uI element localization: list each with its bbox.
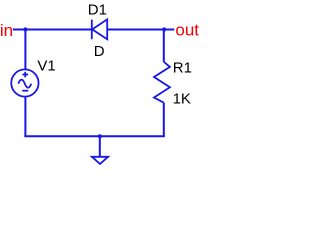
wire right vertical lower <box>163 103 165 137</box>
svg-text:out: out <box>175 21 199 40</box>
junction node in <box>23 27 27 31</box>
svg-text:D: D <box>94 43 105 60</box>
svg-text:1K: 1K <box>173 90 191 107</box>
wire left vertical lower <box>24 97 26 138</box>
resistor R1 <box>154 62 170 103</box>
diode D1 <box>92 19 107 39</box>
ground <box>92 157 108 164</box>
wire diode to out junction <box>107 29 174 31</box>
svg-text:R1: R1 <box>173 59 192 76</box>
wire ground stub <box>99 136 101 156</box>
junction ground node <box>98 134 102 138</box>
svg-text:in: in <box>0 21 13 40</box>
svg-text:D1: D1 <box>88 1 107 18</box>
wire in stub to diode <box>13 29 91 31</box>
junction node out <box>162 27 166 31</box>
svg-text:V1: V1 <box>37 58 55 75</box>
wire left vertical upper <box>24 30 26 71</box>
wire right vertical upper <box>163 30 165 62</box>
voltage source V1 <box>11 69 38 96</box>
wire bottom rail <box>24 135 164 137</box>
